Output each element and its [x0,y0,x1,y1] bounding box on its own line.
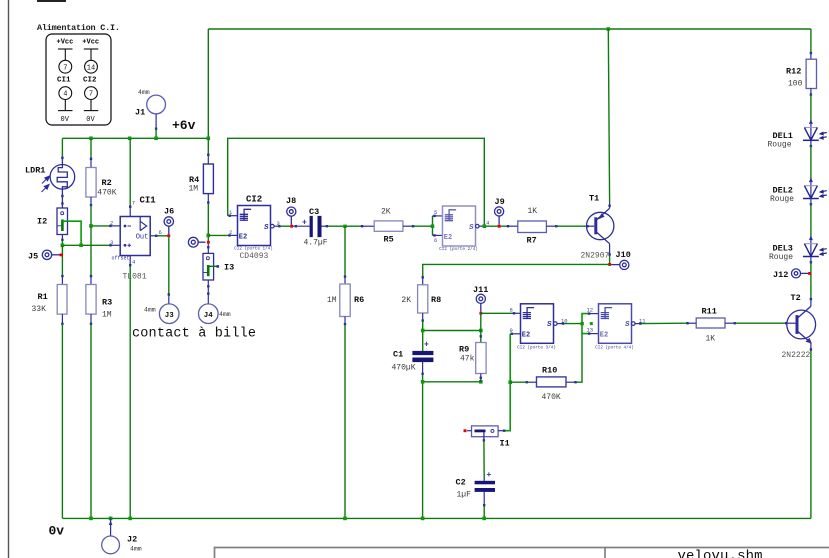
svg-text:R5: R5 [384,235,394,245]
svg-text:CI2 (porte 4/4): CI2 (porte 4/4) [595,345,634,350]
svg-text:J9: J9 [495,197,505,207]
svg-text:1µF: 1µF [457,491,472,500]
svg-text:J4: J4 [204,312,214,320]
connector J9 [495,207,504,225]
svg-text:J3: J3 [165,312,175,320]
svg-text:0v: 0v [49,524,65,539]
wire CI1 pin7 branch from rail [129,138,131,206]
junction dot R10 left [508,380,512,384]
junction dot gate2 input tie [431,224,435,228]
svg-text:R11: R11 [702,307,717,317]
svg-text:C2: C2 [456,478,466,488]
wire R6 to 0v rail [344,325,346,519]
connector J4 4mm [199,304,219,324]
connector J2 4mm [102,518,120,553]
capacitor C3 [310,216,322,237]
resistor LDR1 photoresistor [50,158,75,209]
wire junction to gate4 pin12 [582,312,599,323]
svg-text:LDR1: LDR1 [25,166,45,176]
svg-text:R1: R1 [38,292,48,302]
wire R4 branch from rail [207,138,209,155]
svg-text:7: 7 [63,64,67,72]
wire T2 emitter down to 0v rail [810,343,812,519]
svg-text:2N2222: 2N2222 [782,351,811,360]
wire junction down to R10 right [576,334,583,383]
wire T2 collector up [810,298,812,306]
wire C1-R9 bottom link [423,381,481,383]
wire gate2 input tie [433,215,443,237]
svg-text:7: 7 [89,91,93,99]
svg-text:470K: 470K [542,393,561,402]
svg-text:+6v: +6v [172,118,196,133]
connector unlabeled at gate1 node [188,237,205,247]
svg-text:E2: E2 [522,332,530,340]
svg-text:R8: R8 [431,295,441,305]
svg-text:J1: J1 [135,108,145,118]
svg-text:2: 2 [229,229,232,236]
wire J1 stub [155,114,157,129]
svg-text:4mm: 4mm [130,546,142,553]
svg-text:0V: 0V [86,116,95,124]
resistor R6 [340,275,350,325]
node J10 red tap [608,263,611,266]
node J12 red tap [808,272,811,275]
svg-text:Out: Out [136,234,149,242]
svg-text:1K: 1K [528,207,538,216]
junction dots e+ node [61,244,83,248]
resistor R4 [203,154,213,204]
svg-text:2: 2 [110,220,113,227]
svg-text:E2: E2 [239,233,247,241]
svg-text:R12: R12 [786,67,801,77]
svg-text:Rouge: Rouge [769,253,793,262]
LED DEL3 Rouge [803,236,827,264]
svg-text:CI2 (porte 3/4): CI2 (porte 3/4) [517,345,556,350]
ground symbol 0V CI1 [58,100,73,125]
svg-text:4mm: 4mm [144,307,156,314]
wire R2 branch from rail [90,138,92,159]
resistor R5 [374,221,403,231]
resistor R11 [696,318,725,328]
LED DEL1 Rouge [803,119,827,147]
top edge tick [37,0,66,2]
svg-text:Rouge: Rouge [770,195,794,204]
pin 7 circle CI1 [59,60,72,73]
transistor T2 2N2222 NPN [787,306,816,344]
svg-text:R10: R10 [542,365,557,375]
resistor R3 [86,275,96,325]
svg-text:+: + [424,341,429,350]
svg-text:33K: 33K [32,305,47,314]
ground symbol 0V CI2 [84,100,99,125]
wire junction to gate4 pin13 [582,324,599,335]
node J5 red tap [60,254,63,257]
svg-text:6: 6 [159,229,162,236]
svg-text:+: + [302,219,307,228]
resistor R7 [518,221,547,233]
op-amp CI1 TL081 [120,206,150,267]
wire pin9 net down to I1 [504,334,510,431]
svg-text:I2: I2 [37,217,47,227]
svg-text:R4: R4 [189,175,199,185]
junction dot C3-R6 node [343,225,346,228]
wire gate1 pin1 stub [228,215,238,217]
LDR1 light arrows [42,176,50,192]
svg-text:CI1: CI1 [140,196,157,206]
svg-text:S: S [469,224,474,232]
svg-text:C3: C3 [309,207,319,217]
wire I1 wiper down to C2 [483,441,485,478]
svg-text:I3: I3 [224,263,234,273]
power symbol +Vcc CI2 [82,39,99,61]
wire R12 to DEL1 [810,95,812,122]
junction dot e- node [89,224,93,228]
svg-text:4: 4 [63,91,67,99]
svg-text:1M: 1M [189,185,199,194]
resistor R8 [418,276,428,322]
wire node down to I3 [207,244,209,254]
svg-text:+: + [487,471,492,480]
wire I3 bottom to J4 [207,280,209,304]
nand gate CI2 porte 3/4 [521,304,558,344]
connector J3 4mm [159,293,179,323]
connector J5 [42,250,59,259]
connector J12 [792,269,809,278]
wire R5 to gate2 inputs [403,225,433,227]
svg-text:4mm: 4mm [138,89,150,96]
svg-text:8: 8 [510,307,513,314]
connector J6 [164,217,173,235]
transistor T1 2N2907 PNP [587,208,614,243]
svg-text:4mm: 4mm [219,311,231,318]
capacitor C1 470µK [412,351,433,362]
nand gate CI2 porte 4/4 [599,304,636,344]
pin 7 circle CI2 [85,87,98,100]
connector J1 4mm [147,95,166,114]
wire DEL1 to DEL2 [810,146,812,180]
wire DEL3 to T2 collector [810,262,812,299]
power symbol +Vcc CI1 [57,39,74,61]
svg-text:J12: J12 [773,270,788,280]
junction dots 0v rail [89,517,486,521]
wire CI1 output pin6 [150,235,167,237]
junction dot gate1 pin2 node [207,234,211,238]
svg-text:offset: offset [112,256,130,262]
resistor R2 [86,158,96,207]
svg-text:CI2 (porte 1/4): CI2 (porte 1/4) [234,247,273,252]
wire 0v rail [62,517,811,519]
wire CI1 pin4 offset to 0v rail [129,266,131,518]
svg-text:TL081: TL081 [123,273,147,282]
connector J8 [287,207,296,225]
wire T1 collector down to J10 node [608,244,610,265]
wire R6 branch down [344,226,346,277]
svg-text:S: S [547,321,552,329]
wire gate3 output to gates junction [557,322,582,324]
pin 14 circle CI2 [85,60,98,73]
wire T1 collector node to R8 [423,264,610,277]
junction dots C1 top node [421,329,483,333]
trimmer I2 [57,208,68,235]
junction dot gates mid [580,322,583,325]
nand gate CI2 porte 2/4 [443,206,480,246]
svg-text:S: S [625,321,630,329]
svg-text:R7: R7 [527,236,537,246]
svg-text:J6: J6 [164,207,174,217]
wire I2 wiper tap [62,221,81,245]
svg-text:J5: J5 [28,252,38,262]
svg-text:J10: J10 [616,250,631,260]
svg-text:4.7µF: 4.7µF [304,239,328,248]
wire I2 bottom to node [61,235,63,246]
wire LDR branch from rail [61,138,63,157]
wire gate3 pin9 stub [510,333,520,335]
wire +6v rail riser to top rail [207,29,209,138]
wire R8 bottom to C1 node [422,321,424,351]
wire gate1 output to C3 [274,225,310,227]
wire gate4 output to R11 [635,322,696,325]
wire R4 bottom to gate1 pin2 node [207,204,209,243]
svg-text:T1: T1 [589,194,599,204]
svg-text:14: 14 [87,64,95,72]
svg-text:2N2907: 2N2907 [581,252,610,261]
wire J11 node to gate3 pin8 [481,312,521,314]
svg-text:CI2: CI2 [83,76,97,84]
svg-text:velovu.shm: velovu.shm [678,548,763,558]
svg-text:R9: R9 [459,345,469,355]
wire J6 node down to J3 [168,237,170,294]
svg-text:1M: 1M [102,311,112,320]
wire top +6v rail [208,28,811,30]
wire R7 to T1 base [546,225,594,227]
svg-text:47k: 47k [460,355,475,364]
connector J10 [611,260,629,269]
nand gate CI2 porte 1/4 [238,206,275,246]
wire top rail down to R12 [810,29,812,54]
svg-text:J11: J11 [473,285,488,295]
node J11 red tap [479,312,482,315]
svg-text:13: 13 [587,327,594,334]
junction dots +6v rail [89,27,610,140]
svg-text:5: 5 [434,209,437,216]
wire R1 to 0v rail [61,324,63,518]
svg-text:1K: 1K [706,335,716,344]
svg-text:C1: C1 [393,350,403,360]
svg-text:100: 100 [788,80,803,89]
junction dot feedback at gate2 out [483,224,487,228]
svg-text:2K: 2K [401,296,411,305]
svg-text:2K: 2K [381,208,391,217]
wire C1 bottom to 0v rail [421,362,423,519]
svg-text:6: 6 [434,237,437,244]
svg-text:Rouge: Rouge [768,140,792,149]
wire e- node to CI1 pin2 [91,225,120,227]
svg-text:470K: 470K [97,188,116,197]
wire R11 to T2 base [725,322,796,324]
node I1 left no-connect red [464,429,467,432]
pin 4 circle CI1 [59,87,72,100]
svg-text:Alimentation C.I.: Alimentation C.I. [37,23,120,33]
junction dots bottom link [421,380,483,384]
svg-text:1M: 1M [327,296,337,305]
svg-text:R2: R2 [102,178,112,188]
svg-text:0V: 0V [61,116,70,124]
capacitor C2 1µF [475,478,495,492]
wire C2 bottom to 0v rail [483,492,485,519]
svg-text:contact à bille: contact à bille [132,327,256,342]
svg-text:+Vcc: +Vcc [82,39,99,47]
svg-text:CI2: CI2 [246,195,262,205]
Alimentation C.I. box outline [46,34,111,125]
svg-text:12: 12 [587,306,594,313]
wire +6v rail [62,137,208,139]
wire DEL2 to DEL3 [810,204,812,238]
node J6 red tap [167,234,170,237]
svg-text:T2: T2 [791,293,801,303]
wire T1 emitter to top rail [608,29,611,208]
node red tap at gate1 node [207,241,210,244]
svg-text:J8: J8 [286,196,296,206]
svg-text:S: S [264,224,269,232]
wire e+ node horizontal to CI1 pin3 [62,244,120,246]
svg-text:CI2 (porte 2/4): CI2 (porte 2/4) [439,247,478,252]
trimmer I1 [467,426,505,442]
svg-text:4: 4 [132,259,136,266]
svg-text:+Vcc: +Vcc [57,39,74,47]
wire e- node down to R3 [90,226,92,276]
resistor R9 [476,335,486,382]
svg-text:R3: R3 [102,298,112,308]
resistor R12 [806,52,816,96]
node J9 red tap [498,225,501,228]
svg-text:E2: E2 [600,332,608,340]
title block [215,548,829,558]
svg-text:E2: E2 [444,234,452,242]
resistor R1 [57,275,67,325]
resistor R10 [510,377,577,387]
LED DEL2 Rouge [803,178,827,206]
svg-text:R6: R6 [354,295,364,305]
page frame left border [8,0,10,558]
wire R2 to e- node [90,206,92,226]
svg-text:I1: I1 [500,439,510,449]
floating dot between gates [590,322,593,325]
svg-text:7: 7 [132,200,135,207]
svg-text:J2: J2 [127,535,137,545]
wire R3 to 0v rail [90,324,92,518]
node J8 red tap [290,225,293,228]
wire node to gate1 pin2 [208,234,237,236]
wire e+ node down to R1 [61,245,63,276]
svg-text:3: 3 [110,239,113,246]
trimmer I3 [203,253,219,280]
connector J11 [476,294,485,312]
svg-text:1: 1 [229,209,233,216]
wire gate2 output to R7 [479,225,518,227]
wire C3 to R5 [322,225,375,227]
svg-text:CD4093: CD4093 [240,252,269,261]
svg-text:470µK: 470µK [392,364,416,373]
wire J11 node down to R9 [480,313,482,342]
wire C1 node horizontal to R9 line [423,330,481,332]
svg-text:CI1: CI1 [57,76,71,84]
wire feedback net gate2 out to gate1 pin1 [228,138,485,226]
